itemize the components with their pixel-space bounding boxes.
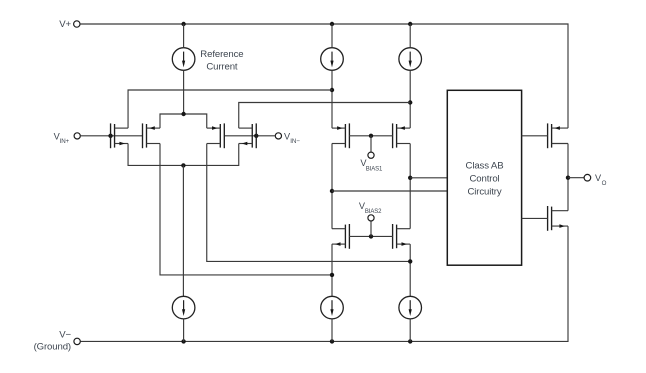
wire M4 drain to right column <box>239 103 410 129</box>
transistor M6 (PMOS cascode right) <box>393 123 411 148</box>
node left column to control box <box>330 189 334 193</box>
VO terminal <box>584 174 591 181</box>
svg-text:Circuitry: Circuitry <box>467 187 501 198</box>
wire M9 drain to output node <box>567 144 569 211</box>
current source I2 (right folded-cascode load) <box>399 48 422 71</box>
node V+ / left current source <box>330 22 334 26</box>
node VBIAS1 <box>369 134 373 138</box>
transistor M1 (NMOS input, VIN+ outer) <box>111 123 129 148</box>
wire NMOS tail to sink I3 <box>182 165 184 296</box>
transistor M7 (NMOS cascode left) <box>332 224 350 249</box>
current sink I5 (right cascode) <box>399 296 422 319</box>
wire output node to VO terminal <box>568 177 584 179</box>
current source I-REF (reference current) <box>172 48 195 71</box>
node output <box>566 176 570 180</box>
wire V+ rail <box>80 24 568 128</box>
V- terminal <box>74 338 80 344</box>
wire V+ to I-REF <box>183 24 185 48</box>
node NMOS pair tail <box>181 163 185 167</box>
current sink I4 (left cascode) <box>321 296 344 319</box>
current sink I3 (input tail) <box>172 296 195 319</box>
VIN+ terminal <box>74 133 80 139</box>
node VBIAS2 <box>369 234 373 238</box>
node VIN- gate junction <box>254 134 258 138</box>
node right column to control box <box>408 176 412 180</box>
svg-text:Current: Current <box>206 61 238 72</box>
wire M7 source to sink I4 <box>331 244 333 296</box>
svg-text:(Ground): (Ground) <box>34 342 71 353</box>
node left column / NMOS pair drain <box>330 88 334 92</box>
node V+ / right current source <box>408 22 412 26</box>
transistor M10 (NMOS output) <box>548 206 568 231</box>
svg-text:Class AB: Class AB <box>466 161 504 172</box>
wire M8 source to sink I5 <box>409 244 411 296</box>
wire M3 drain to right NMOS cascode <box>207 144 410 262</box>
svg-text:O: O <box>602 180 607 187</box>
wire I1 to left cascode column <box>331 70 333 128</box>
wire right column to control box <box>410 177 447 179</box>
wire right column M6 drain to M8 drain <box>409 144 411 229</box>
current source I1 (left folded-cascode load) <box>321 48 344 71</box>
wire PMOS pair common source <box>160 114 207 128</box>
Class AB Control Circuitry block <box>447 90 521 265</box>
wire V+ to I1 <box>331 24 333 48</box>
wire I-REF to PMOS pair tail <box>183 70 185 114</box>
transistor M4 (NMOS input, VIN- outer) <box>239 123 257 148</box>
wire left column to control box <box>332 190 447 192</box>
svg-text:Control: Control <box>469 174 499 185</box>
wire VBIAS2 gate bus <box>349 235 393 237</box>
svg-text:Reference: Reference <box>200 49 243 60</box>
node V- / tail sink <box>181 339 185 343</box>
node VIN+ gate junction <box>108 134 112 138</box>
wire VBIAS2 stub <box>370 221 372 237</box>
wire M2 drain to left NMOS cascode <box>160 144 332 275</box>
wire VIN- to input gates <box>224 135 275 137</box>
wire VBIAS1 gate bus <box>349 135 393 137</box>
wire I5 to V- rail <box>409 319 411 342</box>
wire V+ to I2 <box>409 24 411 48</box>
node V+ / reference current <box>181 22 185 26</box>
transistor M3 (PMOS input, VIN- inner) <box>207 123 225 148</box>
node M2 drain junction <box>330 273 334 277</box>
transistor M5 (PMOS cascode left) <box>332 123 350 148</box>
VBIAS2 terminal <box>368 215 374 221</box>
wire NMOS pair common source <box>128 144 239 166</box>
svg-text:V+: V+ <box>59 19 71 30</box>
node right column / NMOS pair drain <box>408 100 412 104</box>
node V- / right sink <box>408 339 412 343</box>
node M3 drain junction <box>408 259 412 263</box>
svg-text:IN−: IN− <box>290 138 300 145</box>
VIN- terminal <box>275 133 281 139</box>
svg-text:V−: V− <box>59 330 71 341</box>
svg-text:BIAS1: BIAS1 <box>366 166 383 172</box>
V+ terminal <box>74 21 80 27</box>
svg-text:IN+: IN+ <box>60 138 70 145</box>
wire left column M5 drain to M7 drain <box>331 144 333 229</box>
node V- / left sink <box>330 339 334 343</box>
transistor M9 (PMOS output) <box>548 123 568 148</box>
svg-text:BIAS2: BIAS2 <box>365 209 382 215</box>
wire box to M10 gate <box>522 217 548 219</box>
VBIAS1 terminal <box>368 152 374 158</box>
wire VBIAS1 stub <box>370 136 372 153</box>
wire M1 drain to left column <box>128 90 332 128</box>
wire V- rail <box>81 226 569 341</box>
node PMOS pair tail <box>181 112 185 116</box>
wire I3 to V- rail <box>183 319 185 342</box>
wire I2 to right cascode column <box>409 70 411 128</box>
transistor M8 (NMOS cascode right) <box>393 224 411 249</box>
wire box to M9 gate <box>522 135 548 137</box>
wire I4 to V- rail <box>331 319 333 342</box>
transistor M2 (PMOS input, VIN+ inner) <box>143 123 161 148</box>
wire VIN+ to input gates <box>80 135 142 137</box>
